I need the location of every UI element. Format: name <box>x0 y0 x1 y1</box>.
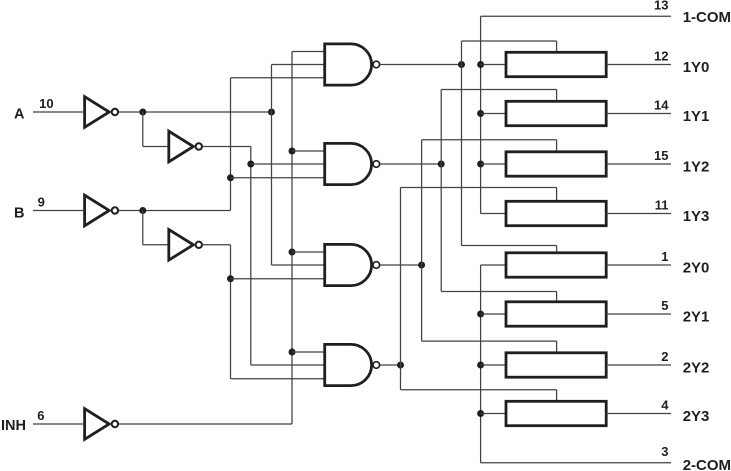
transmission gate switch 2Y0 <box>506 253 606 277</box>
wire NAND4 input 1 <box>292 351 325 353</box>
svg-text:14: 14 <box>654 98 669 113</box>
wire B-bar riser <box>230 78 232 211</box>
svg-text:2Y3: 2Y3 <box>683 408 710 425</box>
wire A-bar down to second inverter <box>142 112 144 147</box>
inverter INH <box>85 409 119 440</box>
wire A-bar riser <box>271 65 273 266</box>
wire switch 2Y3 to pin <box>606 413 671 415</box>
wire COM to switch 1Y0 <box>481 64 506 66</box>
wire COM to switch 2Y1 <box>481 313 506 315</box>
junction B-bar branch <box>139 207 146 214</box>
wire control drop into switch 2Y0 <box>556 246 558 253</box>
wire into inverter B2 <box>143 244 169 246</box>
wire NAND1 input 3 <box>231 77 325 79</box>
junction 1-COM bus row 1Y1 <box>477 110 484 117</box>
wire NAND4 input 2 <box>251 364 325 366</box>
junction NAND1 output to control riser <box>458 61 465 68</box>
svg-text:12: 12 <box>654 49 668 64</box>
wire control riser NAND1 <box>461 41 463 246</box>
junction INH to NAND4 <box>289 349 296 356</box>
wire control drop into switch 1Y3 <box>556 188 558 202</box>
junction 2-COM bus row 2Y2 <box>477 362 484 369</box>
svg-text:5: 5 <box>661 298 668 313</box>
junction B-bar to NAND2 <box>227 174 234 181</box>
wire B2 riser <box>230 245 232 379</box>
wire switch 1Y0 to pin <box>606 64 671 66</box>
wire COM to switch 1Y1 <box>481 113 506 115</box>
svg-text:1Y3: 1Y3 <box>683 208 710 225</box>
nand gate U4 <box>325 344 380 385</box>
wire input B to inverter <box>33 210 83 212</box>
wire control riser NAND2 <box>440 90 442 292</box>
wire switch 2Y0 to pin <box>606 264 671 266</box>
svg-text:1Y0: 1Y0 <box>683 59 710 76</box>
wire control drop into switch 1Y0 <box>556 41 558 52</box>
svg-text:13: 13 <box>654 0 668 13</box>
wire NAND3 input 1 <box>292 251 325 253</box>
svg-text:2Y2: 2Y2 <box>683 360 710 377</box>
svg-text:INH: INH <box>1 418 26 434</box>
wire B-bar line <box>119 210 231 212</box>
svg-text:A: A <box>14 106 25 122</box>
svg-text:2-COM: 2-COM <box>683 457 731 471</box>
inverter A (first) <box>85 97 119 128</box>
wire A-bar line <box>119 111 272 113</box>
wire NAND2 input 1 <box>292 150 325 152</box>
wire NAND3 input 2 <box>272 264 325 266</box>
junction 1-COM bus row 1Y0 <box>477 61 484 68</box>
wire 2-COM bus <box>480 265 482 463</box>
svg-text:1Y2: 1Y2 <box>683 159 710 176</box>
wire COM to switch 1Y2 <box>481 163 506 165</box>
wire control to switch 2Y0 <box>462 245 557 247</box>
wire B2 output <box>203 244 231 246</box>
junction 2-COM bus row 2Y3 <box>477 410 484 417</box>
svg-text:2: 2 <box>661 349 668 364</box>
svg-text:6: 6 <box>37 408 44 423</box>
junction A-bar branch <box>139 109 146 116</box>
nand gate U1 <box>325 44 380 85</box>
wire 1-COM bus <box>480 16 482 213</box>
wire control to switch 2Y2 <box>422 340 557 342</box>
svg-text:2Y1: 2Y1 <box>683 309 710 326</box>
wire NAND3 output <box>380 264 421 266</box>
nand gate U2 <box>325 143 380 184</box>
wire control to switch 1Y3 <box>401 187 557 189</box>
wire control riser NAND3 <box>421 140 423 341</box>
junction A2 to NAND2 <box>247 161 254 168</box>
transmission gate switch 1Y2 <box>506 152 606 176</box>
wire switch 1Y2 to pin <box>606 163 671 165</box>
junction A-bar to riser <box>268 109 275 116</box>
wire control to switch 2Y3 <box>401 389 557 391</box>
wire NAND4 output <box>380 364 400 366</box>
svg-text:2Y0: 2Y0 <box>683 260 710 277</box>
wire NAND2 input 3 <box>231 177 325 179</box>
junction B2 to NAND3 <box>227 275 234 282</box>
wire 2-COM pin line <box>481 462 671 464</box>
nand gate U3 <box>325 244 380 285</box>
svg-text:15: 15 <box>654 148 668 163</box>
wire switch 2Y2 to pin <box>606 364 671 366</box>
wire INH-bar line <box>119 423 292 425</box>
junction NAND3 output to control riser <box>418 262 425 269</box>
wire NAND2 output <box>380 163 441 165</box>
wire B-bar down to second inverter <box>142 211 144 245</box>
wire control to switch 1Y0 <box>462 40 557 42</box>
svg-text:1Y1: 1Y1 <box>683 108 710 125</box>
wire COM to switch 2Y3 <box>481 413 506 415</box>
wire NAND1 input 1 <box>292 51 325 53</box>
wire NAND1 input 2 <box>272 64 325 66</box>
wire NAND1 output <box>380 64 461 66</box>
transmission gate switch 2Y2 <box>506 353 606 377</box>
inverter A2 (second) <box>169 131 202 162</box>
wire switch 1Y3 to pin <box>606 213 671 215</box>
svg-text:9: 9 <box>38 194 45 209</box>
junction NAND2 output to control riser <box>438 161 445 168</box>
wire control drop into switch 2Y3 <box>556 390 558 402</box>
transmission gate switch 1Y3 <box>506 201 606 225</box>
wire A2 output <box>203 146 251 148</box>
svg-text:B: B <box>14 205 24 221</box>
inverter B2 (second) <box>169 230 202 261</box>
wire control drop into switch 2Y2 <box>556 341 558 353</box>
wire COM to switch 2Y2 <box>481 364 506 366</box>
wire into inverter A2 <box>143 146 169 148</box>
wire control riser NAND4 <box>400 188 402 390</box>
wire input A to inverter <box>33 111 83 113</box>
transmission gate switch 1Y1 <box>506 101 606 125</box>
wire NAND4 input 3 <box>231 378 325 380</box>
junction 1-COM bus row 1Y2 <box>477 161 484 168</box>
wire control to switch 1Y2 <box>422 139 557 141</box>
wire COM to switch 2Y0 <box>481 264 506 266</box>
svg-text:4: 4 <box>661 398 669 413</box>
wire INH-bar riser <box>291 52 293 425</box>
wire control drop into switch 2Y1 <box>556 292 558 302</box>
svg-text:1-COM: 1-COM <box>683 9 731 26</box>
wire COM to switch 1Y3 <box>481 213 506 215</box>
transmission gate switch 1Y0 <box>506 52 606 76</box>
svg-text:10: 10 <box>39 96 53 111</box>
wire control to switch 1Y1 <box>441 89 556 91</box>
wire switch 2Y1 to pin <box>606 313 671 315</box>
wire 1-COM pin line <box>481 15 671 17</box>
wire control to switch 2Y1 <box>441 291 556 293</box>
svg-text:11: 11 <box>655 198 669 213</box>
wire control drop into switch 1Y1 <box>556 90 558 102</box>
svg-text:1: 1 <box>661 249 668 264</box>
junction NAND4 output to control riser <box>397 362 404 369</box>
transmission gate switch 2Y3 <box>506 401 606 425</box>
wire input INH to inverter <box>33 423 83 425</box>
junction INH to NAND3 <box>289 249 296 256</box>
inverter B (first) <box>85 195 119 226</box>
junction 2-COM bus row 2Y1 <box>477 311 484 318</box>
svg-text:3: 3 <box>661 444 668 459</box>
transmission gate switch 2Y1 <box>506 302 606 326</box>
junction INH to NAND2 <box>289 148 296 155</box>
wire A2 riser <box>250 147 252 366</box>
wire switch 1Y1 to pin <box>606 113 671 115</box>
wire control drop into switch 1Y2 <box>556 140 558 152</box>
wire NAND3 input 3 <box>231 278 325 280</box>
wire NAND2 input 2 <box>251 163 325 165</box>
